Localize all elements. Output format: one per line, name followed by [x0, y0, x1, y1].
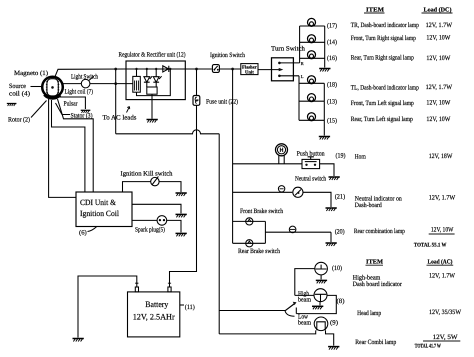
svg-text:R: R [301, 61, 304, 66]
wire: R lamp bus [299, 26, 301, 63]
lamp 9 rear combi [314, 317, 328, 331]
svg-text:Neutral switch: Neutral switch [295, 176, 327, 183]
svg-text:Spark plug(5): Spark plug(5) [135, 227, 165, 234]
brake parallel box top branch [233, 220, 266, 222]
wire: reg internal return [137, 69, 171, 96]
svg-text:TOTAL 41.7 W: TOTAL 41.7 W [415, 344, 441, 350]
wire: lamp9 to ground [326, 330, 334, 345]
magneto core teeth right [57, 82, 59, 93]
wire: CDI ground lead [132, 204, 181, 213]
wire: light switch to regulator [90, 83, 133, 85]
wire: magneto pulser to CDI (outer) [52, 100, 85, 192]
svg-text:beam: beam [298, 297, 312, 304]
lamp 18 [308, 76, 316, 84]
ignition switch S2 box [212, 65, 219, 73]
neutral indicator lamp 21 [293, 187, 303, 197]
svg-text:12V, 1.7W: 12V, 1.7W [429, 273, 456, 280]
wire: CDI to spark plug [132, 219, 157, 221]
svg-text:(10): (10) [332, 265, 342, 272]
svg-text:Light coil (7): Light coil (7) [65, 89, 94, 96]
turn switch contact L [278, 75, 281, 78]
node: DC bus tap [231, 68, 234, 71]
lamp 17 [308, 18, 316, 26]
svg-text:Rear, Turn Right signal lamp: Rear, Turn Right signal lamp [351, 55, 415, 62]
ground: lamp10 [316, 280, 327, 283]
svg-text:Rear combination lamp: Rear combination lamp [354, 228, 406, 235]
node: fuse tap [195, 68, 198, 71]
svg-text:12V, 1.7W: 12V, 1.7W [426, 84, 453, 91]
brake light switch S7 [289, 226, 296, 233]
svg-text:Unit: Unit [245, 70, 254, 75]
svg-text:ITEM: ITEM [366, 7, 384, 14]
ground: brake [326, 243, 337, 246]
wire: AC to rear combi lamp [219, 330, 316, 334]
battery terminal plus [168, 287, 171, 292]
wire: lamp10 ground stem [320, 275, 322, 280]
ground: regulator [147, 120, 158, 123]
wire: magneto stator to CDI (inner) [58, 99, 94, 192]
svg-text:(16): (16) [327, 55, 337, 62]
ground: CDI [176, 214, 187, 217]
wire: DC bus vertical [232, 69, 234, 243]
svg-text:Front, Turn Right signal lamp: Front, Turn Right signal lamp [351, 35, 417, 42]
wire: brake output [265, 231, 331, 233]
svg-text:12V, 5W: 12V, 5W [433, 334, 459, 341]
wire: fuse drop [196, 69, 198, 96]
diode D1 on bus [163, 66, 169, 72]
ground: horn [329, 177, 340, 180]
ground: stator [81, 110, 91, 113]
wire: lamp row 18 [299, 82, 324, 84]
svg-text:Front, Turn Left signal lamp: Front, Turn Left signal lamp [351, 100, 415, 107]
headlamp 8 [314, 289, 327, 302]
wire: neutral to ground [303, 192, 331, 207]
underline: 12V 10W rear comb [429, 233, 455, 235]
battery minus mark [135, 282, 138, 284]
turn switch contact R [278, 62, 281, 65]
ground: battery [73, 339, 84, 342]
svg-text:TOTAL 55.1 W: TOTAL 55.1 W [414, 243, 447, 249]
flasher unit box [241, 64, 258, 75]
svg-text:(14): (14) [327, 39, 337, 46]
spark plug P5 [157, 216, 167, 226]
svg-text:(9): (9) [330, 320, 338, 327]
svg-text:Pulsar: Pulsar [64, 101, 79, 108]
svg-text:Rear Combi lamp: Rear Combi lamp [355, 339, 397, 346]
wire: AC bus vertical down [218, 134, 220, 334]
wire: main bus through regulator [126, 68, 185, 70]
lamp 16 [308, 51, 316, 59]
wire: spark plug to ground [167, 220, 181, 232]
svg-text:Ignition Kill switch: Ignition Kill switch [121, 171, 174, 178]
ignition switch lever [214, 66, 218, 70]
wire: horn to ground [320, 164, 334, 176]
svg-text:12V, 35/35W: 12V, 35/35W [429, 309, 462, 316]
wire: lamp row 15 [299, 119, 324, 121]
regulator control block [133, 76, 141, 92]
svg-text:Regulator & Rectifier unit (12: Regulator & Rectifier unit (12) [119, 52, 186, 59]
svg-text:12V, 10W: 12V, 10W [426, 116, 451, 123]
battery plus mark [168, 282, 171, 285]
node: AC tap on light line [114, 82, 117, 85]
svg-text:Light Switch: Light Switch [71, 74, 99, 81]
headlamp selector arm [285, 304, 295, 311]
svg-text:Push button: Push button [297, 151, 326, 158]
svg-text:coil (4): coil (4) [9, 91, 30, 98]
ground: lamp9 [328, 347, 339, 350]
svg-text:Load (AC): Load (AC) [428, 259, 453, 266]
pointer: source coil to magneto [31, 86, 43, 88]
horn legs [279, 156, 284, 164]
lamp 10 high beam indicator [315, 262, 328, 275]
node: reg internal 3 [155, 68, 157, 70]
svg-text:12V, 10W: 12V, 10W [426, 55, 451, 62]
underline: Load (AC) [427, 264, 454, 266]
svg-text:Head lamp: Head lamp [357, 310, 382, 317]
svg-text:(6): (6) [79, 230, 87, 237]
pointer: (11) tick [180, 304, 184, 306]
node: AC tap on bus [114, 68, 117, 71]
svg-text:Battery: Battery [145, 300, 169, 309]
wire: magneto to CDI left [49, 99, 76, 197]
front brake switch S5 [246, 218, 253, 225]
wire: lamp row 16 [300, 57, 325, 59]
svg-text:Source: Source [9, 83, 26, 90]
svg-text:(18): (18) [327, 82, 337, 89]
node: reg internal 2 [146, 68, 148, 70]
svg-text:12V, 10W: 12V, 10W [431, 227, 454, 234]
light switch lever [89, 76, 94, 80]
ignition kill switch S8 [151, 177, 159, 185]
svg-text:Load (DC): Load (DC) [424, 7, 452, 14]
svg-text:(13): (13) [327, 99, 337, 106]
wire: AC to headlamp selector [219, 310, 285, 312]
wire: fuse to battery plus [170, 106, 197, 288]
svg-text:(17): (17) [327, 23, 337, 30]
push button PB box [302, 159, 320, 168]
ground: kill switch [176, 193, 187, 196]
svg-text:(20): (20) [335, 229, 345, 236]
underline: ITEM DC [364, 12, 385, 14]
wire: headlamp ground stem [319, 302, 321, 306]
svg-text:(8): (8) [337, 298, 345, 305]
svg-text:(21): (21) [335, 194, 346, 201]
underline: 12V 5W [423, 340, 460, 342]
svg-text:Front Brake switch: Front Brake switch [240, 208, 284, 215]
SCR Q2 [153, 69, 161, 87]
wire: lamp row 13 [299, 100, 324, 102]
svg-text:12V, 2.5AHr: 12V, 2.5AHr [133, 313, 175, 322]
brake parallel box right side [264, 221, 266, 243]
svg-text:12V, 1.7W: 12V, 1.7W [429, 195, 456, 202]
svg-text:Rear, Turn Left signal lamp: Rear, Turn Left signal lamp [351, 116, 414, 123]
svg-text:(15): (15) [327, 118, 337, 125]
wire: right lamp bus R group [324, 26, 326, 68]
wire: CDI to kill switch [123, 182, 151, 192]
rear brake switch S6 [246, 240, 253, 247]
svg-text:To AC leads: To AC leads [103, 115, 137, 122]
wire: AC feed horizontal with hop over fuse line [116, 130, 220, 134]
wire: L lamp bus [298, 76, 300, 121]
wire: low beam loop [296, 295, 336, 313]
ground: L lamp group [319, 137, 330, 140]
ground: R lamp group [319, 69, 330, 72]
pointer: (6) to CDI [88, 227, 97, 232]
pointer: To AC leads arrow [127, 107, 130, 113]
svg-text:Fuse unit (22): Fuse unit (22) [206, 99, 238, 106]
svg-text:Turn Switch: Turn Switch [271, 46, 306, 53]
regulator output block [147, 87, 157, 94]
wire: lamp row 17 [300, 25, 325, 27]
magneto center dot [51, 86, 54, 89]
svg-text:12V, 10W: 12V, 10W [426, 35, 451, 42]
pointer: stator to magneto [56, 103, 71, 115]
ground: neutral [326, 208, 337, 211]
magneto core teeth left [46, 82, 48, 93]
underline: ITEM AC [366, 264, 384, 266]
svg-text:L: L [301, 74, 304, 79]
ground: source coil [7, 104, 17, 107]
CDI unit U6 box [76, 192, 132, 227]
pointer: rotor to magneto [31, 101, 47, 118]
battery terminal minus [135, 287, 138, 292]
neutral circuit wire [233, 191, 293, 193]
svg-text:Rear Brake switch: Rear Brake switch [238, 248, 281, 255]
wire: lamp row 14 [300, 41, 325, 43]
fuse F22 [193, 96, 200, 106]
svg-text:beam: beam [298, 320, 312, 327]
node: reg internal 4 [169, 68, 171, 70]
svg-text:TR, Dash-board indicator lamp: TR, Dash-board indicator lamp [351, 22, 420, 29]
magneto armature core [47, 79, 58, 96]
battery B11 box [128, 292, 180, 337]
regulator control block bars [135, 81, 139, 91]
wire: magneto frame ground lead [59, 97, 86, 109]
node: reg internal 1 [135, 68, 137, 70]
lamp 13 [308, 94, 316, 102]
svg-text:Magneto (1): Magneto (1) [14, 70, 48, 77]
turn switch S3 box [272, 58, 294, 81]
lamp 14 [308, 35, 316, 43]
light switch S1 [81, 79, 90, 88]
regulator & rectifier unit U12 box [126, 61, 185, 100]
wire: high beam node [295, 269, 315, 296]
wire: ignition switch to flasher [220, 68, 241, 70]
svg-text:Dash board indicator: Dash board indicator [353, 281, 403, 288]
brake parallel box bottom branch [233, 242, 266, 244]
wire: right lamp bus L group [323, 83, 325, 135]
wire: magneto right to light switch line [63, 83, 81, 85]
wire: AC feed vertical drop [115, 69, 117, 134]
horn circuit wire [233, 163, 302, 165]
wire: flasher to turn switch arrow [258, 69, 280, 71]
svg-text:Horn: Horn [355, 153, 367, 160]
wire: kill switch to ground [159, 182, 181, 192]
wire: high contact to headlamp [295, 294, 314, 296]
magneto pulser shoe (bottom blob) [45, 95, 61, 99]
underline: Load (DC) [422, 12, 453, 14]
svg-text:(19): (19) [336, 153, 346, 160]
ground: headlamp [312, 306, 323, 309]
svg-text:Dash-board: Dash-board [355, 202, 383, 209]
SCR Q1 [144, 69, 152, 87]
ground: spark plug [176, 233, 187, 236]
svg-text:CDI Unit &: CDI Unit & [80, 198, 117, 207]
svg-text:Ignition Coil: Ignition Coil [80, 209, 120, 218]
svg-text:Ignition Switch: Ignition Switch [210, 52, 246, 59]
wire: battery minus to ground [78, 276, 137, 338]
wire: bus to control block [136, 69, 138, 76]
magneto M1 outer ring [42, 77, 63, 98]
svg-text:ITEM: ITEM [366, 259, 383, 266]
lamp 15 [308, 113, 316, 121]
wire: bus regulator to ignition switch [185, 68, 212, 70]
neutral switch S4 [278, 186, 284, 192]
svg-text:Rotor (2): Rotor (2) [8, 117, 30, 124]
wire: magneto top to main DC bus [55, 69, 127, 78]
wire: regulator ground stem [151, 94, 153, 119]
horn H19 [276, 144, 288, 156]
svg-text:TL, Dash-board indicator lamp: TL, Dash-board indicator lamp [351, 85, 420, 92]
svg-text:12V, 1.7W: 12V, 1.7W [426, 22, 453, 29]
svg-text:12V, 18W: 12V, 18W [429, 153, 453, 160]
svg-text:12V, 10W: 12V, 10W [426, 100, 451, 107]
wire: brake to ground [330, 232, 332, 242]
svg-text:(11): (11) [185, 304, 195, 311]
svg-text:Stator (3): Stator (3) [71, 113, 93, 120]
